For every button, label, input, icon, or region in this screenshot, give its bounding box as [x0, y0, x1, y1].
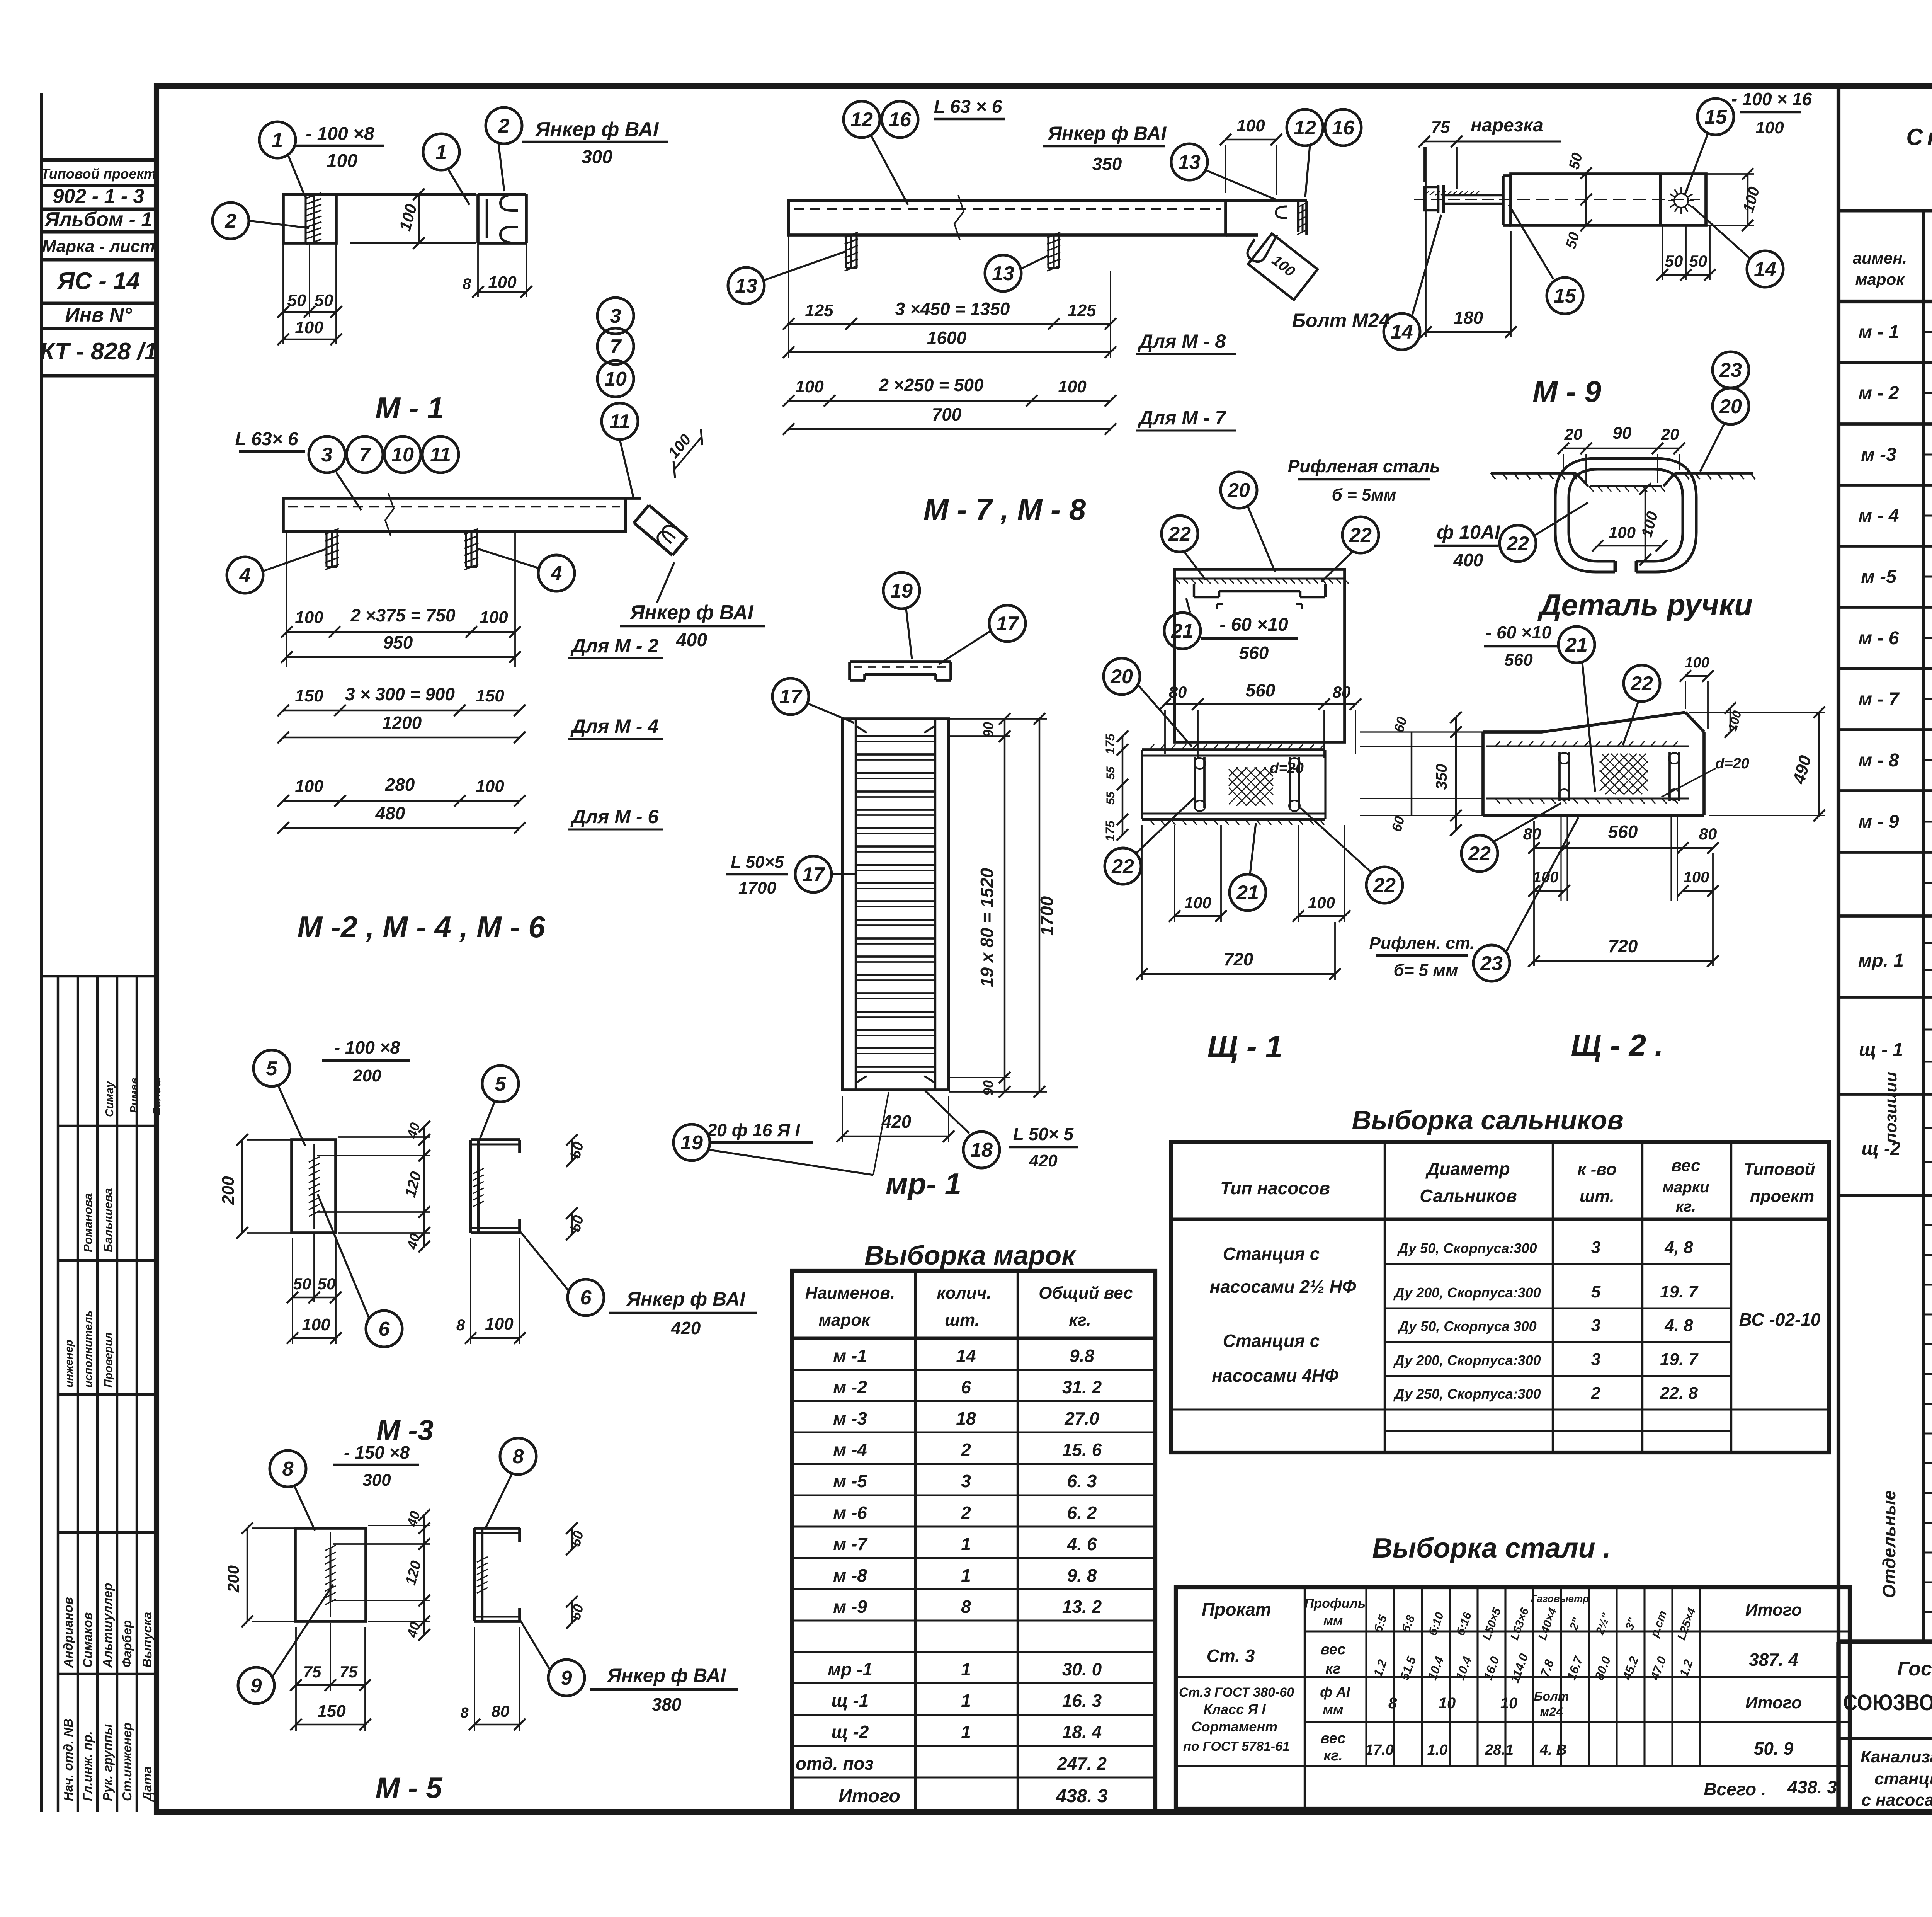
svg-text:Выпуска: Выпуска [140, 1612, 154, 1668]
svg-text:18: 18 [956, 1408, 976, 1428]
svg-text:22: 22 [1630, 672, 1653, 695]
svg-text:19. 7: 19. 7 [1660, 1282, 1699, 1301]
svg-text:М - 1: М - 1 [375, 391, 444, 425]
table vyborka stali [1176, 1587, 1850, 1809]
svg-text:125: 125 [805, 301, 833, 320]
svg-text:Типовой: Типовой [1743, 1160, 1815, 1179]
Shch-2 callouts below [1461, 835, 1498, 872]
svg-text:М - 9: М - 9 [1532, 375, 1601, 409]
svg-text:22. 8: 22. 8 [1660, 1384, 1698, 1403]
svg-text:100: 100 [1685, 655, 1709, 671]
svg-text:Нач. отд. NВ: Нач. отд. NВ [61, 1718, 75, 1801]
Shch-2 panel [1483, 730, 1542, 734]
svg-text:шт.: шт. [945, 1311, 980, 1330]
svg-text:б= 5 мм: б= 5 мм [1394, 961, 1458, 980]
svg-text:16. 3: 16. 3 [1062, 1691, 1102, 1711]
Shch-1 anchor loops [1194, 757, 1196, 808]
svg-text:Газовыетр: Газовыетр [1531, 1593, 1589, 1604]
svg-text:СОЮЗВОДОКАНАЛПРОЕКТ: СОЮЗВОДОКАНАЛПРОЕКТ [1843, 1690, 1932, 1715]
svg-text:м -3: м -3 [833, 1408, 867, 1428]
svg-text:d=20: d=20 [1270, 760, 1304, 776]
dim chain M-8 1600 [788, 235, 789, 358]
svg-text:Ду 200, Скорпуса:300: Ду 200, Скорпуса:300 [1393, 1285, 1541, 1301]
svg-text:8: 8 [460, 1705, 469, 1721]
handle label f10AI 400 [1434, 545, 1498, 547]
svg-text:насосами 4НФ: насосами 4НФ [1212, 1365, 1338, 1386]
svg-text:100: 100 [1755, 118, 1784, 137]
svg-text:12: 12 [1294, 117, 1316, 139]
ladder MR-1 body [842, 719, 949, 1090]
ladder MR-1 top cap [850, 660, 951, 663]
svg-text:560: 560 [1246, 680, 1276, 700]
anchor stud M-7 left [850, 235, 852, 268]
diamond plate at M-8 end [1248, 233, 1318, 300]
table vyborka marok [792, 1271, 1155, 1812]
svg-text:17: 17 [802, 863, 825, 886]
svg-text:175: 175 [1103, 733, 1117, 754]
svg-text:м - 7: м - 7 [1859, 689, 1900, 710]
Shch-1 callouts below [1105, 848, 1141, 884]
svg-text:м - 6: м - 6 [1859, 628, 1899, 649]
Shch-2 dim 100 corner rotated [1730, 708, 1731, 732]
svg-text:Щ - 1: Щ - 1 [1207, 1029, 1283, 1064]
svg-text:420: 420 [881, 1112, 912, 1132]
svg-text:6. 2: 6. 2 [1067, 1503, 1097, 1523]
svg-text:Рифленая сталь: Рифленая сталь [1288, 456, 1440, 476]
handle dims 100 [1598, 545, 1662, 546]
svg-text:Янкер ф ВАI: Янкер ф ВАI [1047, 123, 1167, 144]
svg-text:15. 6: 15. 6 [1062, 1440, 1102, 1460]
callouts 12 16 right [1287, 109, 1323, 146]
Shch-1 callout 20 left [1104, 658, 1140, 695]
svg-text:вес: вес [1321, 1730, 1346, 1747]
svg-text:80: 80 [492, 1702, 510, 1720]
callout 2 channel [486, 107, 522, 144]
svg-text:50: 50 [287, 291, 306, 310]
handle inner hatch strip [1590, 485, 1662, 487]
svg-text:мр -1: мр -1 [828, 1659, 872, 1679]
svg-text:50: 50 [315, 291, 333, 310]
detail M-1 plate view [283, 194, 336, 243]
svg-text:марок: марок [818, 1311, 871, 1330]
svg-text:кг: кг [1325, 1661, 1341, 1677]
svg-text:м -7: м -7 [833, 1534, 868, 1554]
svg-text:18: 18 [970, 1139, 993, 1161]
svg-text:10: 10 [1439, 1695, 1456, 1712]
svg-text:по ГОСТ 5781-61: по ГОСТ 5781-61 [1183, 1739, 1290, 1754]
detail M-3 label anchor 420 [609, 1312, 757, 1314]
svg-text:2: 2 [1591, 1384, 1601, 1403]
svg-text:9: 9 [561, 1667, 572, 1689]
svg-text:4. 8: 4. 8 [1664, 1316, 1693, 1335]
svg-text:438. 3: 438. 3 [1056, 1786, 1108, 1806]
svg-text:19 х 80 = 1520: 19 х 80 = 1520 [977, 868, 997, 987]
svg-text:300: 300 [582, 147, 612, 167]
svg-text:8: 8 [961, 1597, 971, 1617]
svg-text:2: 2 [225, 210, 236, 232]
svg-text:75: 75 [303, 1663, 321, 1681]
svg-text:22: 22 [1373, 874, 1396, 897]
M-1 assembly bar [283, 498, 626, 531]
svg-text:2: 2 [961, 1440, 971, 1460]
svg-text:м24: м24 [1540, 1705, 1563, 1719]
M-7 M-8 assembly bar [789, 201, 1226, 235]
callout 4 left [227, 557, 263, 593]
svg-text:мм: мм [1323, 1614, 1343, 1628]
svg-text:7: 7 [359, 444, 371, 466]
hook anchor under M-8 end [1248, 235, 1277, 262]
detail M-1 anchor channel view [476, 194, 480, 243]
svg-text:ф АI: ф АI [1320, 1684, 1350, 1700]
svg-text:исполнитель: исполнитель [82, 1310, 95, 1388]
svg-text:Балышева: Балышева [101, 1188, 115, 1252]
svg-text:мр. 1: мр. 1 [1858, 950, 1904, 971]
svg-text:80: 80 [1169, 683, 1187, 701]
detail M-3 label -100x8/200 [322, 1059, 410, 1062]
svg-text:20: 20 [1661, 425, 1679, 443]
svg-text:9: 9 [251, 1675, 262, 1697]
svg-text:55: 55 [1104, 791, 1117, 805]
svg-text:17: 17 [996, 613, 1019, 635]
svg-text:марок: марок [1855, 270, 1905, 288]
svg-text:кг.: кг. [1676, 1198, 1696, 1215]
svg-text:50: 50 [1689, 252, 1708, 270]
svg-text:200: 200 [219, 1176, 238, 1205]
svg-text:Романова: Романова [81, 1193, 95, 1252]
svg-text:6: 6 [961, 1377, 971, 1397]
svg-text:350: 350 [1433, 764, 1450, 790]
svg-text:300: 300 [362, 1471, 391, 1490]
svg-text:22: 22 [1111, 855, 1134, 878]
svg-text:Общий вес: Общий вес [1039, 1284, 1133, 1302]
svg-text:- 100 × 16: - 100 × 16 [1731, 89, 1812, 109]
svg-text:Итого: Итого [1745, 1693, 1802, 1712]
svg-text:480: 480 [375, 803, 405, 823]
svg-text:10: 10 [391, 444, 414, 466]
svg-text:100: 100 [1684, 869, 1709, 886]
svg-text:13: 13 [992, 262, 1014, 285]
svg-text:22: 22 [1468, 843, 1491, 865]
svg-text:марки: марки [1663, 1179, 1709, 1196]
svg-text:3: 3 [1591, 1316, 1600, 1335]
svg-text:Сортамент: Сортамент [1192, 1719, 1277, 1735]
svg-text:8: 8 [1388, 1695, 1397, 1712]
M-8 bar right end with bent anchor [1226, 199, 1307, 202]
svg-text:м - 4: м - 4 [1859, 506, 1899, 526]
Shch-1 dims [1165, 703, 1355, 705]
Shch-2 dim 490 right [1818, 712, 1820, 815]
detail M-5 plate view [295, 1528, 366, 1621]
callout 13 leader left stud [728, 267, 764, 304]
svg-text:75: 75 [1431, 118, 1450, 137]
M-1 bar right bend with channel [626, 497, 641, 500]
svg-text:М - 5: М - 5 [375, 1772, 443, 1805]
svg-text:13: 13 [735, 275, 757, 297]
svg-text:560: 560 [1504, 650, 1533, 669]
svg-text:Выборка сальников: Выборка сальников [1352, 1105, 1623, 1135]
dim chain 950 for M-2 [286, 531, 287, 667]
callout 19 17 top [883, 572, 920, 609]
svg-text:- 60 ×10: - 60 ×10 [1219, 615, 1288, 635]
svg-text:Для М - 2: Для М - 2 [570, 635, 659, 657]
M-9 dims [1424, 141, 1457, 142]
dims below M-1 views [283, 311, 336, 313]
svg-text:м - 8: м - 8 [1859, 750, 1899, 771]
svg-text:Ст.инженер: Ст.инженер [120, 1723, 134, 1801]
svg-text:Для М - 6: Для М - 6 [570, 806, 659, 827]
svg-text:Всего .: Всего . [1704, 1779, 1766, 1799]
svg-text:19: 19 [680, 1132, 703, 1154]
svg-text:9. 8: 9. 8 [1067, 1565, 1097, 1585]
svg-text:Ду 50, Скорпуса:300: Ду 50, Скорпуса:300 [1397, 1240, 1537, 1256]
svg-text:1200: 1200 [382, 713, 422, 733]
svg-text:Фарбер: Фарбер [120, 1620, 134, 1668]
handle dims 20 90 20 [1563, 448, 1679, 449]
svg-text:м - 2: м - 2 [1859, 383, 1899, 403]
Shch-2 dim 100 top right [1685, 675, 1708, 677]
svg-text:к -во: к -во [1577, 1160, 1617, 1179]
svg-text:10: 10 [604, 368, 627, 390]
svg-text:100: 100 [1184, 894, 1211, 912]
svg-text:100: 100 [1058, 377, 1087, 396]
detail M-5 callout 9 left [238, 1667, 274, 1704]
svg-text:125: 125 [1068, 301, 1096, 320]
sidebar signature table [57, 976, 59, 1812]
svg-text:м -2: м -2 [833, 1377, 867, 1397]
svg-text:75: 75 [340, 1663, 358, 1681]
svg-text:387. 4: 387. 4 [1749, 1650, 1798, 1670]
svg-text:Марка - лист: Марка - лист [42, 237, 155, 256]
dim 100 top right [1226, 139, 1276, 140]
svg-text:6. 3: 6. 3 [1067, 1471, 1097, 1491]
svg-text:м -3: м -3 [1861, 444, 1896, 465]
svg-text:Профиль: Профиль [1304, 1596, 1366, 1611]
svg-text:100: 100 [795, 377, 824, 396]
label anchor 350 [1043, 145, 1165, 147]
detail M-5 label anchor 380 [590, 1688, 738, 1691]
svg-text:м -1: м -1 [833, 1346, 867, 1366]
svg-text:Ст.3 ГОСТ 380-60: Ст.3 ГОСТ 380-60 [1179, 1685, 1294, 1700]
svg-text:4, 8: 4, 8 [1664, 1238, 1693, 1257]
svg-text:Андрианов: Андрианов [61, 1597, 75, 1668]
M-9 bar [1511, 174, 1706, 225]
svg-text:50. 9: 50. 9 [1754, 1738, 1794, 1759]
svg-text:м -9: м -9 [833, 1597, 867, 1617]
svg-text:2: 2 [498, 115, 510, 137]
svg-text:d=20: d=20 [1715, 756, 1749, 772]
detail M-3 channel view [469, 1140, 472, 1233]
svg-text:Станция с: Станция с [1223, 1244, 1320, 1264]
svg-text:9.8: 9.8 [1070, 1346, 1094, 1366]
svg-text:950: 950 [383, 632, 413, 652]
svg-text:150: 150 [317, 1702, 346, 1721]
svg-text:м -4: м -4 [833, 1440, 867, 1460]
svg-text:Яльбом - 1: Яльбом - 1 [44, 208, 153, 231]
svg-text:Янкер ф ВАI: Янкер ф ВАI [629, 601, 754, 624]
svg-text:5: 5 [1591, 1282, 1601, 1301]
svg-text:м -5: м -5 [833, 1471, 867, 1491]
svg-text:мм: мм [1323, 1701, 1343, 1717]
svg-text:15: 15 [1554, 285, 1577, 307]
svg-text:Рук. группы: Рук. группы [100, 1724, 115, 1801]
dim chain 480 for M-6 [283, 800, 520, 802]
svg-text:23: 23 [1719, 359, 1742, 381]
svg-text:нарезка: нарезка [1471, 115, 1543, 136]
spec table header [1838, 300, 1932, 303]
svg-text:Станция с: Станция с [1223, 1331, 1320, 1351]
svg-text:17.0: 17.0 [1365, 1742, 1394, 1758]
svg-text:насосами 2½ НФ: насосами 2½ НФ [1210, 1277, 1356, 1297]
svg-text:8: 8 [513, 1445, 524, 1468]
svg-text:Госстрой СССР.: Госстрой СССР. [1897, 1658, 1932, 1680]
svg-text:проект: проект [1750, 1187, 1815, 1206]
svg-text:Янкер ф ВАI: Янкер ф ВАI [607, 1665, 726, 1686]
svg-text:ф 10АI: ф 10АI [1437, 521, 1500, 543]
svg-text:20: 20 [1110, 666, 1133, 688]
M-9 callouts [1697, 99, 1734, 135]
svg-text:Отдельные: Отдельные [1879, 1490, 1899, 1598]
svg-text:- 100 ×8: - 100 ×8 [306, 124, 374, 144]
callouts 12 16 top left [844, 101, 880, 138]
svg-text:1: 1 [961, 1565, 971, 1585]
Shch-2 dim chain 60 350 60 left [1455, 717, 1457, 830]
svg-text:50: 50 [1665, 252, 1683, 270]
svg-text:20: 20 [1227, 479, 1250, 502]
svg-text:2 ×250 = 500: 2 ×250 = 500 [878, 375, 984, 395]
svg-text:150: 150 [295, 686, 323, 705]
svg-text:м -5: м -5 [1861, 567, 1897, 587]
svg-text:100: 100 [295, 608, 323, 627]
ladder rungs [856, 735, 935, 737]
Shch-2 dims below [1534, 847, 1713, 849]
svg-text:щ - 1: щ - 1 [1859, 1040, 1903, 1060]
svg-text:2 ×375 = 750: 2 ×375 = 750 [350, 605, 456, 625]
svg-text:Янкер ф ВАI: Янкер ф ВАI [626, 1288, 746, 1310]
detail M-3 callout 5 left [253, 1050, 290, 1086]
svg-text:100: 100 [1609, 523, 1636, 541]
M-9 end plate with hole [1659, 174, 1662, 225]
svg-text:20: 20 [1719, 395, 1742, 418]
svg-text:4: 4 [239, 564, 251, 587]
svg-text:13: 13 [1178, 151, 1201, 174]
svg-text:М -3: М -3 [376, 1414, 434, 1446]
svg-text:мр- 1: мр- 1 [886, 1167, 961, 1201]
svg-text:13. 2: 13. 2 [1062, 1597, 1102, 1617]
svg-text:27.0: 27.0 [1064, 1408, 1099, 1428]
ladder dim 420 bottom [842, 1136, 949, 1137]
svg-text:5: 5 [266, 1057, 278, 1080]
detail M-5 callout 8 right [500, 1438, 536, 1474]
svg-text:кг.: кг. [1323, 1748, 1343, 1764]
svg-text:1: 1 [961, 1722, 971, 1742]
svg-text:1600: 1600 [927, 328, 967, 348]
svg-text:21: 21 [1171, 620, 1194, 642]
table vyborka salnikov [1171, 1142, 1829, 1452]
svg-text:175: 175 [1103, 820, 1117, 841]
svg-text:100: 100 [302, 1315, 330, 1334]
svg-text:6: 6 [580, 1287, 592, 1309]
svg-text:5: 5 [495, 1073, 507, 1095]
svg-text:80: 80 [1699, 825, 1717, 843]
svg-text:Щ - 2 .: Щ - 2 . [1571, 1028, 1663, 1062]
svg-text:50: 50 [293, 1275, 311, 1293]
detail M-5 label -150x8/300 [333, 1464, 419, 1466]
detail M-3 callout 6 left [366, 1311, 402, 1347]
svg-text:ВС -02-10: ВС -02-10 [1739, 1309, 1820, 1330]
svg-text:Класс Я I: Класс Я I [1204, 1701, 1266, 1717]
Shch-1 top callouts [1162, 516, 1198, 552]
svg-text:Диаметр: Диаметр [1425, 1159, 1510, 1179]
svg-text:22: 22 [1349, 524, 1372, 546]
svg-text:200: 200 [224, 1565, 242, 1593]
svg-text:55: 55 [1104, 766, 1117, 780]
svg-text:М -2 , М - 4 , М - 6: М -2 , М - 4 , М - 6 [297, 910, 545, 944]
svg-text:Типовой проект: Типовой проект [41, 166, 156, 182]
svg-text:L 63 × 6: L 63 × 6 [934, 97, 1002, 117]
Shch-2 plate edges with weld hatch [1486, 745, 1689, 747]
svg-text:8: 8 [463, 276, 471, 293]
svg-text:100: 100 [295, 777, 323, 796]
svg-text:720: 720 [1608, 936, 1638, 956]
Shch-1 crosshatch hole [1229, 767, 1238, 776]
callout 18 bottom label [963, 1132, 1000, 1168]
svg-text:Для М - 8: Для М - 8 [1138, 330, 1226, 352]
svg-text:11: 11 [609, 410, 630, 433]
svg-text:Гл.инж. пр.: Гл.инж. пр. [80, 1731, 95, 1801]
svg-text:м -6: м -6 [833, 1503, 867, 1523]
svg-text:380: 380 [652, 1694, 682, 1714]
svg-text:1: 1 [961, 1659, 971, 1679]
detail M-5 callout 8 left [270, 1451, 306, 1487]
handle C profile [1569, 469, 1683, 561]
svg-text:Проверил: Проверил [102, 1332, 115, 1388]
anchor stud right [470, 531, 472, 567]
svg-text:12: 12 [850, 109, 873, 131]
svg-text:с насосами 2½ НФ или 4НФ: с насосами 2½ НФ или 4НФ [1861, 1791, 1932, 1810]
label anchor f8AI 300 [522, 141, 668, 143]
svg-text:Инв N°: Инв N° [65, 304, 132, 326]
Shch-1 label 21 -60x10/560 [1164, 613, 1201, 649]
svg-text:200: 200 [352, 1066, 381, 1085]
svg-text:80: 80 [1523, 825, 1541, 843]
svg-text:м - 1: м - 1 [1859, 322, 1899, 342]
handle ground hatch line [1491, 472, 1576, 475]
callout stack 3 7 10 11 horizontal [309, 436, 345, 473]
svg-text:L 63× 6: L 63× 6 [235, 429, 298, 449]
svg-text:Ст. 3: Ст. 3 [1207, 1646, 1255, 1666]
svg-text:1: 1 [272, 129, 283, 152]
svg-text:вес: вес [1672, 1156, 1701, 1175]
svg-text:100: 100 [480, 608, 508, 627]
sidebar stamp boxes [41, 158, 156, 162]
svg-text:ЯС - 14: ЯС - 14 [56, 268, 140, 295]
svg-text:3: 3 [961, 1471, 971, 1491]
svg-text:30. 0: 30. 0 [1062, 1659, 1102, 1679]
svg-text:11: 11 [430, 444, 451, 466]
svg-text:22: 22 [1168, 523, 1191, 545]
detail M-3 dims below plate [292, 1238, 293, 1344]
svg-text:позиции: позиции [1881, 1072, 1900, 1143]
ladder dims right [1004, 719, 1005, 1092]
svg-text:28.1: 28.1 [1485, 1742, 1514, 1758]
svg-text:Янкер ф ВАI: Янкер ф ВАI [535, 118, 659, 141]
spec table [1837, 86, 1840, 1642]
svg-text:4. 6: 4. 6 [1067, 1534, 1097, 1554]
svg-text:Итого: Итого [1745, 1600, 1802, 1619]
callout 2 plate weld [213, 203, 249, 239]
svg-text:16: 16 [889, 109, 912, 131]
svg-text:100: 100 [476, 777, 504, 796]
